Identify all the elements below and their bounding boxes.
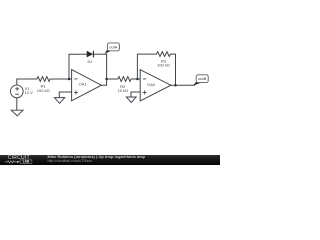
svg-text:100 kΩ: 100 kΩ <box>157 63 170 68</box>
svg-text:D1: D1 <box>87 59 93 64</box>
svg-text:outA: outA <box>109 44 118 49</box>
svg-text:OA2: OA2 <box>147 82 156 87</box>
svg-text:LAB: LAB <box>23 159 30 163</box>
svg-text:outB: outB <box>198 76 207 81</box>
svg-text:100 kΩ: 100 kΩ <box>37 88 50 93</box>
svg-text:OA1: OA1 <box>79 82 88 87</box>
svg-text:10 V: 10 V <box>25 90 34 95</box>
svg-text:10 kΩ: 10 kΩ <box>118 88 129 93</box>
